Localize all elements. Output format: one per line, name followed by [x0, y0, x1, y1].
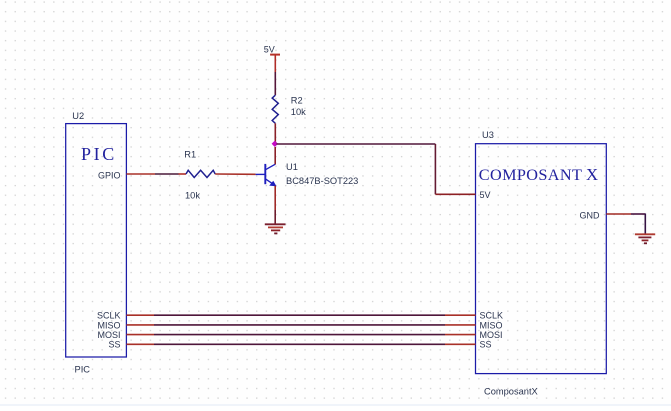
wire SS main (dark): [154, 343, 445, 345]
transistor U1 (NPN BC847B): [256, 164, 276, 186]
ground symbol (emitter): [265, 224, 286, 233]
wire SCLK stub left (red): [127, 314, 155, 316]
wire U3 GND pin stub (red): [606, 213, 631, 215]
svg-text:5V: 5V: [480, 190, 491, 200]
wire MOSI main (dark): [154, 334, 445, 336]
wire into U3 5V pin: [435, 193, 475, 195]
wire emitter to ground (dark): [274, 210, 276, 224]
wire U3 corner vertical drop: [434, 144, 436, 194]
svg-text:SCLK: SCLK: [97, 311, 121, 321]
wire 5V bar to R2 top: [274, 56, 276, 73]
svg-text:GND: GND: [580, 211, 601, 221]
svg-text:10k: 10k: [291, 107, 306, 117]
IC U2 body (PIC): [66, 124, 127, 357]
svg-text:ComposantX: ComposantX: [484, 387, 538, 397]
power symbol 5V (bar): [270, 54, 280, 56]
wire MISO main (dark): [154, 324, 445, 326]
ground symbol (U3 GND): [635, 234, 655, 243]
svg-text:X: X: [586, 165, 598, 184]
svg-text:COMPOSANT: COMPOSANT: [479, 166, 582, 184]
svg-text:MISO: MISO: [97, 320, 120, 330]
svg-text:R1: R1: [184, 149, 196, 159]
wire MISO stub right (red): [445, 324, 476, 326]
wire SCLK main (dark): [154, 314, 445, 316]
svg-text:U3: U3: [482, 130, 494, 140]
wire GND vertical drop: [644, 214, 646, 234]
wire R2 bottom to junction: [274, 123, 276, 144]
IC U3 body (COMPOSANT X): [476, 144, 607, 374]
svg-text:SS: SS: [108, 340, 120, 350]
wire emitter down (red): [274, 186, 276, 210]
resistor R1 zigzag: [186, 170, 215, 177]
svg-text:U1: U1: [286, 162, 298, 172]
svg-text:MISO: MISO: [480, 320, 503, 330]
svg-text:BC847B-SOT223: BC847B-SOT223: [286, 176, 358, 186]
svg-text:SCLK: SCLK: [480, 311, 504, 321]
wire GND corner (dark): [631, 213, 645, 215]
wire into R1 left lead: [179, 173, 187, 175]
wire R1 right to transistor base: [215, 173, 255, 175]
svg-text:GPIO: GPIO: [98, 171, 121, 181]
wire SS stub right (red): [445, 343, 476, 345]
svg-text:MOSI: MOSI: [97, 330, 120, 340]
svg-text:10k: 10k: [185, 191, 200, 201]
svg-text:5V: 5V: [264, 45, 275, 55]
wire segment above R2 (overlap): [274, 72, 276, 95]
svg-text:R2: R2: [291, 95, 303, 105]
svg-text:PIC: PIC: [81, 144, 117, 164]
svg-text:MOSI: MOSI: [480, 330, 503, 340]
wire MOSI stub left (red): [127, 334, 155, 336]
svg-text:SS: SS: [480, 340, 492, 350]
wire junction to U3 corner (horizontal): [277, 143, 436, 145]
wire MOSI stub right (red): [445, 334, 476, 336]
resistor R2 zigzag: [272, 95, 278, 123]
wire SS stub left (red): [127, 343, 155, 345]
svg-text:U2: U2: [72, 111, 84, 121]
wire MISO stub left (red): [127, 324, 155, 326]
wire SCLK stub right (red): [445, 314, 476, 316]
wire junction down to collector: [274, 147, 276, 165]
wire GPIO overlap segment (dark): [155, 173, 179, 175]
wire GPIO pin stub (red): [127, 173, 156, 175]
svg-text:PIC: PIC: [75, 364, 91, 374]
junction node (collector / 5V net): [272, 141, 278, 147]
